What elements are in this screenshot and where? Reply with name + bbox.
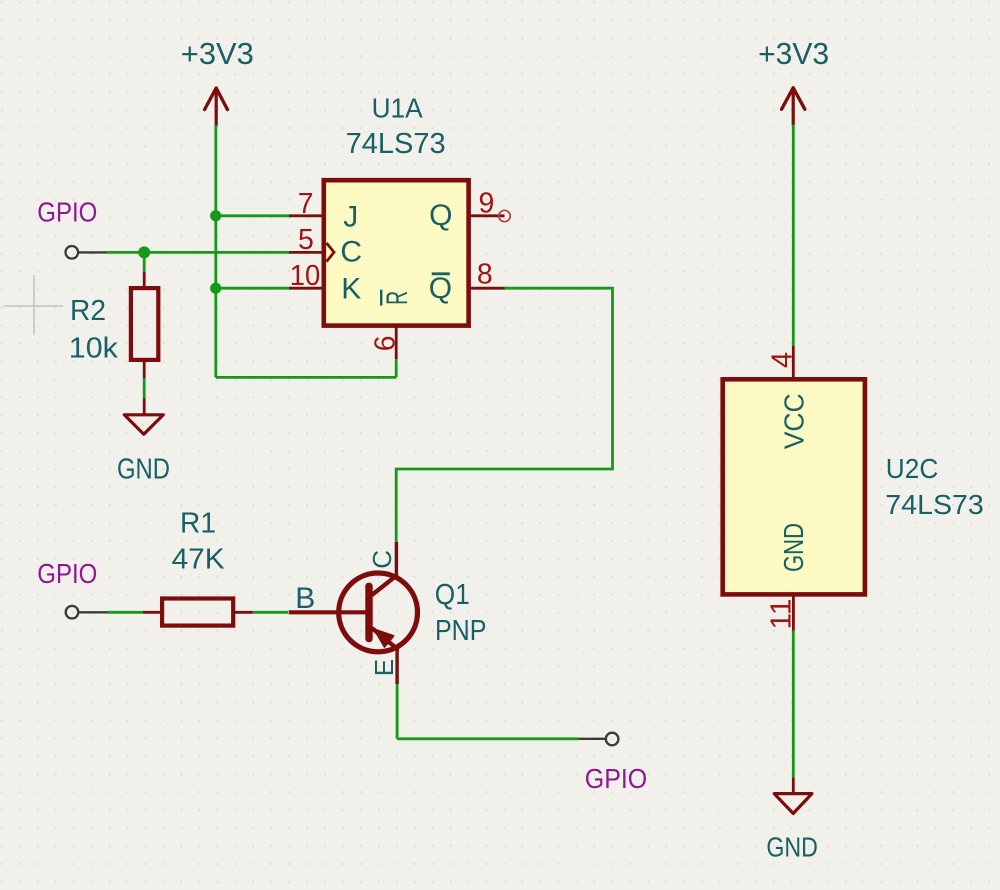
IC U1A body xyxy=(324,180,469,325)
svg-text:B: B xyxy=(295,582,315,615)
gray lead GPIO (top left) xyxy=(79,251,107,253)
wire emitter down xyxy=(396,684,399,739)
pin 6 stub xyxy=(395,326,398,359)
svg-text:GPIO: GPIO xyxy=(37,196,97,227)
svg-text:R1: R1 xyxy=(180,508,216,540)
emitter arrow (PNP) xyxy=(374,629,393,647)
wire net pin8 to transistor collector xyxy=(396,288,612,542)
resistor R2 bottom lead xyxy=(143,360,146,378)
terminal circle GPIO (bottom left) xyxy=(66,606,79,619)
svg-text:C: C xyxy=(367,550,397,569)
svg-text:R: R xyxy=(381,291,414,305)
svg-text:+3V3: +3V3 xyxy=(758,38,829,71)
Qbar overbar xyxy=(432,272,450,275)
pin 8 stub xyxy=(469,287,505,290)
IC U2C body xyxy=(723,379,865,594)
svg-text:47K: 47K xyxy=(172,543,226,575)
pin 4 stub xyxy=(792,346,795,379)
wire R2 top xyxy=(143,252,146,272)
resistor R1 right lead xyxy=(234,611,253,614)
svg-text:GND: GND xyxy=(117,453,170,485)
collector diagonal xyxy=(373,576,397,595)
transistor Q1 circle xyxy=(339,573,418,652)
wire vertical main (+3V3 to K row to pin6 elbow) xyxy=(214,125,217,377)
ground symbol (left) xyxy=(124,415,163,434)
GND lead (right) xyxy=(792,777,795,793)
wire C row xyxy=(106,251,290,254)
resistor R1 left lead xyxy=(143,611,161,614)
svg-text:C: C xyxy=(340,236,362,269)
emitter pin xyxy=(395,649,398,684)
wire J row xyxy=(216,214,290,217)
pin 11 stub xyxy=(792,595,795,631)
svg-text:GND: GND xyxy=(766,832,818,863)
origin crosshair marker xyxy=(4,275,63,334)
pin 10 stub xyxy=(289,287,324,290)
svg-text:R2: R2 xyxy=(70,295,106,327)
svg-text:74LS73: 74LS73 xyxy=(346,128,446,160)
svg-text:10k: 10k xyxy=(69,333,119,365)
svg-text:PNP: PNP xyxy=(435,615,487,647)
clock triangle pin C xyxy=(327,243,335,262)
resistor R1 body xyxy=(162,599,233,626)
wire pin6 elbow to vertical main xyxy=(216,376,396,379)
wire GPIO to R1 xyxy=(107,611,143,614)
junction K row xyxy=(210,283,221,294)
svg-text:+3V3: +3V3 xyxy=(181,38,254,71)
wire K row xyxy=(216,287,290,290)
svg-text:VCC: VCC xyxy=(779,393,810,449)
svg-text:J: J xyxy=(343,200,358,233)
wire pin6 down xyxy=(395,359,398,377)
svg-text:74LS73: 74LS73 xyxy=(885,489,984,520)
svg-text:K: K xyxy=(341,273,361,306)
wire GND pin down xyxy=(792,631,795,778)
gray lead GPIO (bottom right) xyxy=(579,738,606,740)
svg-text:Q: Q xyxy=(429,199,452,232)
svg-text:4: 4 xyxy=(767,352,799,368)
junction C row at R2 xyxy=(138,246,150,258)
svg-text:6: 6 xyxy=(370,336,402,352)
dangling end circle pin 9 xyxy=(499,210,510,221)
svg-text:10: 10 xyxy=(290,260,321,292)
svg-text:GND: GND xyxy=(778,523,809,572)
power symbol +3V3 (left) arrow xyxy=(205,88,228,125)
svg-text:7: 7 xyxy=(298,188,314,220)
terminal circle GPIO (top left) xyxy=(66,246,79,259)
Rbar overbar (vertical) xyxy=(380,290,382,306)
svg-text:E: E xyxy=(369,659,399,676)
wire R2 to GND xyxy=(143,378,146,399)
svg-text:GPIO: GPIO xyxy=(37,558,97,589)
power symbol +3V3 (right) arrow xyxy=(782,88,805,125)
collector pin xyxy=(395,542,398,577)
emitter diagonal xyxy=(373,629,397,649)
svg-text:Q: Q xyxy=(429,272,452,305)
wire R1 to base xyxy=(253,611,289,614)
transistor base bar xyxy=(365,586,372,638)
resistor R2 top lead xyxy=(143,272,146,287)
svg-text:U1A: U1A xyxy=(372,92,423,123)
terminal circle GPIO (bottom right) xyxy=(606,733,619,746)
gray lead GPIO (bottom left) xyxy=(79,611,107,613)
ground symbol (right) xyxy=(774,794,812,814)
junction J row xyxy=(210,210,221,221)
svg-text:GPIO: GPIO xyxy=(585,763,648,794)
wire emitter to GPIO (bottom right) xyxy=(397,737,578,740)
svg-text:U2C: U2C xyxy=(886,453,939,484)
pin 9 stub xyxy=(469,214,505,217)
transistor base pin xyxy=(289,610,367,614)
pin 5 stub xyxy=(289,251,324,254)
wire +3V3 to VCC pin xyxy=(792,125,795,346)
svg-text:8: 8 xyxy=(477,259,493,291)
GND lead (left) xyxy=(143,399,146,415)
resistor R2 body xyxy=(131,288,158,360)
svg-text:9: 9 xyxy=(479,187,495,219)
svg-text:5: 5 xyxy=(298,224,314,256)
svg-text:Q1: Q1 xyxy=(435,579,470,611)
pin 7 stub xyxy=(289,214,324,217)
svg-text:11: 11 xyxy=(766,599,798,630)
